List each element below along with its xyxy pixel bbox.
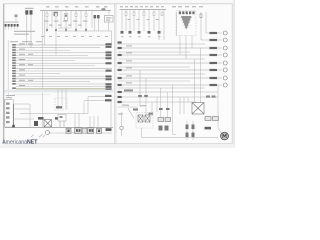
rp wire b [118, 47, 222, 49]
rp wire g [118, 66, 190, 68]
label box L2 [165, 118, 171, 122]
terminal circle 5 [223, 61, 227, 65]
faint wire [13, 94, 50, 96]
drop value specks [128, 19, 159, 20]
wire row 17 [16, 86, 112, 88]
relay K2 contacts [94, 15, 97, 18]
ECU internal symbol [181, 16, 192, 30]
relay K2 top label [102, 8, 106, 10]
wire to conn row1 [206, 32, 222, 34]
drop to X-box pin 2 [200, 48, 202, 103]
fuse F21 [125, 12, 127, 15]
fuse F3 [64, 14, 68, 21]
label text block [14, 31, 35, 35]
wire from strip 2 [13, 108, 30, 110]
highlight stripe [5, 90, 114, 93]
rp lower labels [118, 89, 134, 103]
motor M1 letter [223, 134, 226, 138]
terminal label 4 [210, 54, 218, 56]
wire row 15 [16, 80, 90, 82]
wire drop x56 [55, 11, 57, 56]
terminal circle 3 [223, 46, 227, 50]
terminal label 1 [210, 32, 218, 34]
drop end pins [46, 29, 87, 31]
connector row pins [67, 129, 100, 132]
label boxes mid [205, 117, 211, 121]
node label B [55, 117, 60, 119]
connector rail [7, 40, 9, 97]
verticals into bottom row [58, 89, 111, 127]
terminal label 6 [210, 69, 218, 71]
vertical wire x30 [29, 104, 31, 128]
rp lower wire 3 [118, 101, 196, 103]
wire lower [50, 132, 113, 134]
bottom row label [106, 128, 112, 131]
wire row 2 [16, 47, 100, 49]
aux inner mark [60, 116, 63, 118]
drop from track 1 [151, 102, 153, 116]
drops right page [122, 10, 164, 41]
drop x206 [205, 12, 207, 33]
bus 30 (right page) [120, 9, 167, 11]
page divider 2 [116, 4, 118, 144]
connector strip T1 [5, 22, 19, 27]
terminal circle 2 [223, 38, 227, 42]
terminal circle 1 [223, 31, 227, 35]
riser wire [173, 85, 177, 135]
wire drop x42 [42, 11, 44, 128]
switch lever S20 [121, 112, 123, 126]
wire row 14 [16, 78, 112, 80]
fuse F5 [85, 13, 87, 17]
cluster labels [133, 108, 138, 110]
switch box with X [44, 120, 52, 128]
wire to motor [218, 128, 221, 133]
diagonal wire [128, 108, 134, 118]
switch labels [118, 113, 123, 114]
rp wire m [118, 87, 205, 89]
wire row 16 [16, 83, 112, 85]
drop from track 2 [156, 97, 158, 112]
wire from strip 1 [13, 103, 30, 105]
wire row 6 [16, 57, 112, 59]
track number row (left page) [46, 6, 108, 7]
fuse F2 [55, 13, 57, 17]
relay K2 leg 2 [97, 18, 99, 31]
fuse F22 [133, 12, 135, 15]
rp wire j [118, 77, 222, 79]
wire row 18 core [16, 88, 112, 90]
fuse panel strip box [5, 100, 13, 128]
wire row 9 [16, 65, 95, 67]
switch contact [120, 126, 123, 129]
caption specks [6, 95, 15, 98]
page frame [4, 4, 233, 144]
frame left edge [3, 4, 5, 144]
ECU hatch lines [181, 17, 193, 27]
terminal label 2 [210, 39, 218, 41]
wire drop x76 [75, 11, 77, 31]
wire row 7 [16, 60, 75, 62]
rp wire e [118, 58, 205, 60]
wire drop x52 [51, 11, 53, 29]
wire row 18 yellow [16, 88, 112, 90]
wire drop x81 [80, 11, 82, 29]
rp wire d [118, 54, 222, 56]
wire row 3 [16, 49, 70, 51]
rp lower wire 1 [118, 91, 218, 93]
right labels pair [105, 95, 112, 97]
bottom connector row [66, 128, 102, 134]
dashed switch box [136, 113, 153, 129]
current track labels (left page) [41, 36, 108, 37]
right scan edge [233, 0, 235, 148]
verticals group lower mid [180, 97, 196, 140]
strip pin ticks [6, 27, 18, 30]
fuse value labels [44, 21, 88, 26]
switch S2 [145, 115, 150, 122]
bus 30 (left page) [40, 10, 111, 12]
switch S1 [138, 115, 143, 122]
wire row 11 [16, 70, 112, 72]
strip right rail [12, 104, 14, 128]
branch wire [58, 27, 70, 29]
right end connector labels [106, 43, 112, 90]
terminal label 8 [210, 84, 218, 86]
wire from K1 pin 2 [30, 15, 32, 48]
wire drop x61 [60, 11, 62, 29]
rp left labels [118, 41, 122, 86]
terminal label 3 [210, 47, 218, 49]
drop to L2 [167, 92, 169, 118]
wire row 1 [16, 44, 112, 46]
fuse F4 [75, 13, 77, 17]
wire pair right [88, 96, 112, 98]
resistor blobs [186, 125, 195, 138]
label box L1 [158, 118, 164, 122]
drop x201 [200, 12, 202, 40]
wire drop x44 [44, 11, 46, 46]
ignition switch blob [54, 12, 58, 16]
extra connector box [83, 128, 87, 133]
drop labels [138, 95, 215, 110]
drop to cluster x140 [139, 70, 141, 107]
junction blob [12, 125, 15, 128]
node label A [38, 117, 44, 120]
wire row 5 [16, 54, 88, 56]
dashed ECU box [176, 11, 196, 36]
collector wire [58, 31, 112, 45]
connector labels row [121, 31, 161, 34]
vertical to motor [217, 85, 219, 128]
blob component [34, 121, 38, 126]
relay K2 leg 1 [94, 18, 96, 31]
wire drop x47 [46, 11, 48, 31]
strip pins [6, 103, 10, 124]
wire drop x86 [85, 11, 87, 31]
terminal label 5 [210, 62, 218, 64]
bottom wire run [142, 137, 219, 139]
motor label [205, 127, 212, 130]
wire to conn row2 [201, 39, 222, 41]
wire from K1 pin 1 [26, 15, 28, 45]
wire row 4 [16, 52, 112, 54]
relay blob R2 [165, 126, 169, 131]
ground bus (left page) [5, 127, 113, 129]
rp wire k [118, 80, 190, 82]
sensor G2 lead [15, 17, 17, 22]
ECU pin drops [177, 12, 193, 59]
wire row 13 [16, 75, 112, 77]
terminal label 7 [210, 77, 218, 79]
motor M1 [221, 132, 229, 140]
rp wire l [118, 84, 222, 86]
track numbers top right [120, 6, 203, 7]
relay J4 text [106, 17, 112, 20]
pencil marks [31, 134, 45, 137]
sensor G2 [15, 15, 18, 18]
relay J4 box [105, 16, 114, 23]
ECU pin row [179, 11, 195, 14]
drop to cluster x146 [145, 78, 147, 115]
drop to L1 [160, 88, 162, 118]
rp wire f [118, 62, 222, 64]
terminal circle 8 [223, 83, 227, 87]
fuse F1 [46, 13, 48, 17]
left pin labels column [12, 44, 16, 89]
switch wire down [121, 130, 123, 136]
wire drop x92 [91, 11, 93, 29]
aux component box [58, 115, 66, 122]
wire row 12 [16, 73, 60, 75]
track labels row 2 [121, 36, 161, 37]
fuse F25 [161, 12, 163, 15]
band header text [10, 41, 42, 42]
fuse F24 [153, 12, 155, 15]
wire drop x66 [65, 11, 67, 31]
wire long mid [20, 113, 88, 115]
lamp symbol [46, 131, 50, 135]
rp wire c [118, 51, 190, 53]
heater box with X [192, 103, 204, 115]
wire row 10 [16, 67, 112, 69]
wire drop x109 [108, 11, 110, 15]
relay blob R1 [159, 126, 163, 131]
bottom scan edge [0, 145, 235, 148]
svg-text:AmericanaNET: AmericanaNET [2, 140, 38, 146]
fuse F23 [143, 12, 145, 15]
dashed component outline [55, 98, 67, 110]
rp lower wire 2 [118, 96, 218, 98]
wire below switch [141, 128, 143, 138]
relay K1 [25, 8, 34, 15]
wire row 8 [16, 62, 112, 64]
wire drop x71 [70, 11, 72, 29]
aux component pins [60, 121, 64, 127]
rp wire i [118, 73, 205, 75]
rp wire a [118, 43, 205, 45]
page divider [114, 4, 116, 144]
rp colour labels [126, 45, 132, 83]
rp short wire [118, 106, 138, 108]
blob on drop [200, 14, 202, 18]
short wire label [122, 105, 129, 106]
rp wire h [118, 69, 222, 71]
drop to X-box pin 1 [194, 59, 196, 103]
terminal circle 4 [223, 53, 227, 57]
terminal circle 6 [223, 68, 227, 72]
wire colour labels mid [19, 43, 33, 86]
wire relay out [108, 22, 110, 31]
wire from strip 3 [13, 118, 34, 120]
mid label [56, 106, 62, 108]
terminal circle 7 [223, 76, 227, 80]
